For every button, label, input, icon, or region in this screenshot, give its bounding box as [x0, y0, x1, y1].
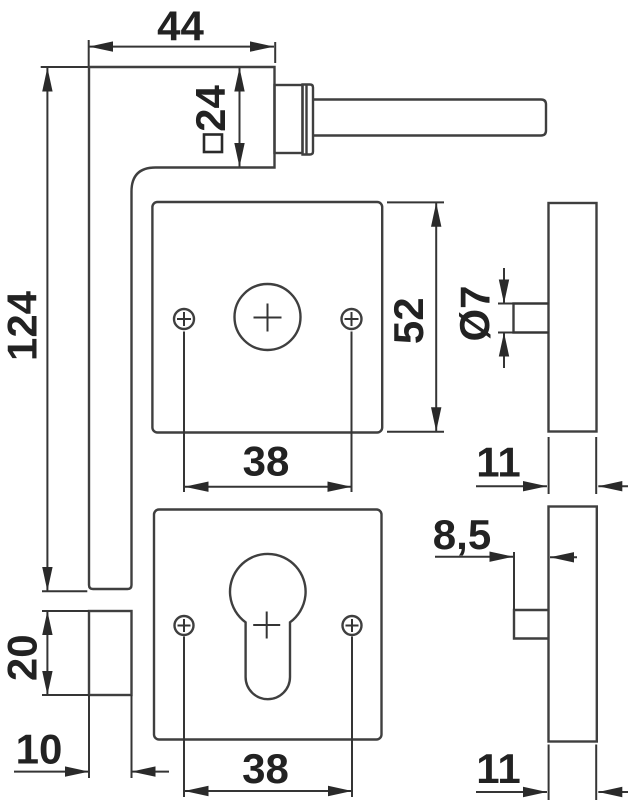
side view top fixing stub [514, 304, 549, 333]
svg-text:10: 10 [16, 726, 63, 773]
handle grip lower piece (20 mm section) [89, 611, 132, 695]
dimension 8,5 [433, 511, 577, 610]
dimension 38 middle [184, 332, 352, 493]
svg-text:20: 20 [0, 634, 45, 681]
svg-text:24: 24 [187, 85, 234, 132]
side view bottom fixing stub [514, 610, 549, 639]
handle neck collar [275, 85, 303, 153]
screw right (middle rosette) [342, 309, 362, 329]
svg-text:11: 11 [476, 439, 520, 486]
svg-text:38: 38 [243, 438, 290, 485]
svg-text:Ø7: Ø7 [452, 285, 499, 341]
dimension 124 [0, 67, 88, 591]
screw left (bottom rosette) [175, 616, 194, 635]
middle rosette square plate [152, 202, 382, 433]
svg-text:44: 44 [157, 3, 204, 50]
svg-text:8,5: 8,5 [433, 511, 491, 558]
svg-text:52: 52 [385, 297, 432, 344]
keyhole euro cylinder cutout [230, 554, 306, 699]
dimension 52 [385, 202, 444, 431]
side view top rosette plate [549, 203, 597, 432]
dimension 10 [14, 695, 169, 778]
keyhole cross [253, 612, 280, 639]
middle rosette center hole [235, 284, 301, 350]
neck ring [303, 85, 314, 155]
middle rosette center cross [254, 304, 282, 332]
square spindle shaft [313, 100, 546, 136]
dimension diameter 7 [452, 268, 550, 368]
svg-text:11: 11 [476, 745, 520, 792]
dimension 20 [0, 611, 89, 695]
dimension square 24 [187, 68, 245, 168]
dimension 44 [89, 3, 276, 67]
screw left (middle rosette) [174, 309, 194, 329]
svg-text:38: 38 [242, 745, 289, 792]
svg-text:124: 124 [0, 290, 46, 361]
bottom rosette square plate [154, 510, 382, 740]
dimension 38 bottom [184, 637, 352, 798]
side view bottom rosette plate [549, 507, 597, 742]
lever handle outline (front view, top bar + grip) [89, 67, 275, 589]
screw right (bottom rosette) [343, 616, 362, 635]
dimension 11 top [476, 437, 628, 494]
dimension 11 bottom [476, 745, 628, 800]
